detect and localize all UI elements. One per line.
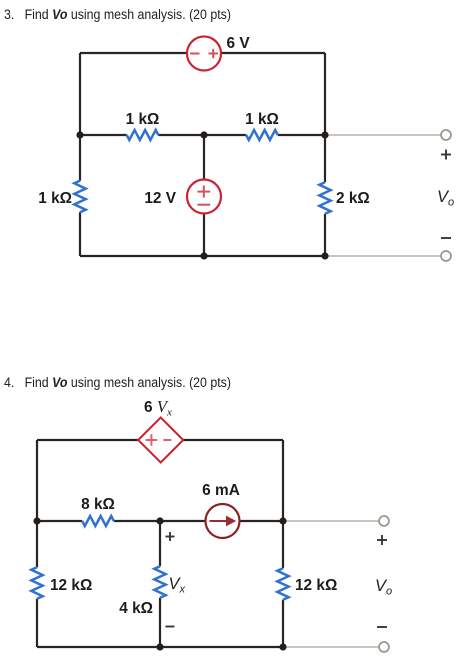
svg-text:8 kΩ: 8 kΩ	[81, 496, 115, 513]
svg-text:6 V: 6 V	[227, 35, 251, 52]
svg-text:4 kΩ: 4 kΩ	[119, 600, 153, 617]
svg-text:6 Vx: 6 Vx	[144, 397, 172, 419]
svg-text:Vo: Vo	[437, 188, 454, 209]
svg-text:2 kΩ: 2 kΩ	[336, 190, 370, 207]
svg-text:4. Find Vo using mesh analys: 4. Find Vo using mesh analysis. (20 pts)	[4, 375, 231, 391]
svg-text:12 kΩ: 12 kΩ	[295, 577, 337, 594]
svg-text:3. Find Vo using mesh analys: 3. Find Vo using mesh analysis. (20 pts)	[4, 7, 231, 23]
svg-text:Vo: Vo	[375, 577, 392, 598]
svg-text:12 kΩ: 12 kΩ	[50, 577, 92, 594]
svg-text:1 kΩ: 1 kΩ	[38, 190, 72, 207]
svg-text:12 V: 12 V	[144, 190, 176, 207]
svg-text:6 mA: 6 mA	[202, 482, 240, 499]
svg-text:1 kΩ: 1 kΩ	[126, 111, 160, 128]
svg-text:Vx: Vx	[169, 575, 186, 596]
svg-text:1 kΩ: 1 kΩ	[245, 111, 279, 128]
